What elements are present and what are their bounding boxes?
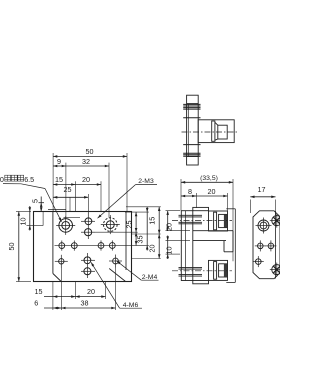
side slab grooves bbox=[179, 215, 203, 276]
M3 hole upper bbox=[81, 218, 95, 225]
bottom-left M6 hole bbox=[55, 255, 68, 268]
center M4 holes center line bbox=[86, 253, 88, 278]
knob taper bottom bbox=[215, 139, 218, 140]
svg-text:25: 25 bbox=[124, 221, 133, 229]
M3 hole ext line bbox=[95, 231, 138, 233]
dim 20 top bbox=[75, 175, 101, 186]
svg-text:15: 15 bbox=[35, 287, 43, 296]
svg-text:15: 15 bbox=[55, 175, 63, 184]
svg-text:50: 50 bbox=[7, 243, 16, 251]
lower knob tip bbox=[219, 264, 227, 277]
right plate big hole bbox=[256, 218, 272, 234]
svg-text:20: 20 bbox=[82, 175, 90, 184]
mid row hole B bbox=[71, 241, 77, 251]
right dim extension lines bbox=[125, 207, 161, 259]
knob body bbox=[198, 120, 234, 143]
dim 9 bbox=[53, 157, 66, 168]
side slab inner edge bbox=[185, 211, 187, 281]
lower knob center line bbox=[172, 270, 232, 272]
dim 6 bottom bbox=[34, 299, 61, 310]
svg-text:25: 25 bbox=[64, 185, 72, 194]
dim 20 v2 left bbox=[164, 211, 190, 231]
dim 20 bottom bbox=[75, 287, 105, 298]
counterbore note bbox=[0, 175, 62, 222]
knob center line bbox=[182, 131, 239, 133]
lower knob flange bbox=[214, 262, 217, 280]
dovetail left edge bbox=[52, 212, 54, 274]
side view inner edge bbox=[187, 104, 189, 157]
svg-text:50: 50 bbox=[86, 147, 94, 156]
svg-text:4-M6: 4-M6 bbox=[123, 302, 139, 309]
svg-text:35: 35 bbox=[135, 236, 144, 244]
platform edge line bbox=[48, 208, 66, 210]
dim 25 right bbox=[124, 212, 137, 245]
right plate outline bbox=[253, 211, 280, 279]
dim 50 left bbox=[7, 212, 31, 282]
svg-text:32: 32 bbox=[82, 157, 90, 166]
svg-text:20: 20 bbox=[164, 223, 173, 231]
upper knob body bbox=[209, 211, 228, 231]
bottom-right M6 hole bbox=[109, 255, 122, 268]
svg-text:6.5: 6.5 bbox=[24, 175, 34, 184]
upper knob flange bbox=[214, 212, 217, 230]
channel right step bbox=[224, 231, 233, 252]
svg-text:6: 6 bbox=[34, 299, 38, 308]
channel bottom line bbox=[193, 240, 226, 242]
svg-text:10: 10 bbox=[164, 247, 173, 255]
dim 50 top bbox=[53, 147, 127, 158]
hole ledge line bbox=[64, 217, 81, 219]
dim 5 bbox=[30, 197, 44, 212]
dim 25 top bbox=[53, 185, 88, 198]
dim 33.5 bbox=[181, 175, 233, 184]
svg-text:20: 20 bbox=[208, 187, 216, 196]
side view top cap separator bbox=[187, 103, 199, 105]
center M4 hole upper bbox=[81, 257, 95, 264]
bottom dim extension lines bbox=[53, 268, 116, 311]
M3 holes center line bbox=[87, 213, 89, 240]
knob taper top bbox=[215, 122, 218, 125]
counterbore hole top-right bbox=[101, 215, 120, 234]
dim 20 right bbox=[148, 234, 161, 259]
dim 20 v2 bbox=[196, 187, 227, 197]
svg-text:15: 15 bbox=[148, 217, 157, 225]
screw top bbox=[270, 214, 284, 228]
screw bottom bbox=[270, 263, 284, 277]
mid row hole D bbox=[109, 240, 115, 250]
right plate hole C bbox=[253, 256, 264, 267]
lower knob boss bbox=[193, 281, 209, 284]
dim 32 bbox=[66, 157, 109, 168]
upper knob center line bbox=[172, 220, 232, 222]
side slab bbox=[181, 211, 193, 281]
side view rail outline bbox=[187, 95, 199, 165]
top dim extension lines bbox=[53, 153, 127, 218]
right plate hole A bbox=[255, 240, 266, 251]
label 2-M4 bbox=[117, 261, 159, 281]
svg-text:38: 38 bbox=[81, 298, 89, 307]
mid row hole C bbox=[98, 240, 104, 250]
knob tip bbox=[218, 125, 227, 139]
upper knob tip bbox=[219, 214, 227, 227]
knob flange bbox=[212, 121, 215, 141]
svg-text:20: 20 bbox=[87, 287, 95, 296]
lower knob body bbox=[209, 260, 228, 280]
dim 17 bbox=[250, 185, 275, 215]
svg-text:(33,5): (33,5) bbox=[200, 175, 218, 182]
dim 38 bottom bbox=[61, 298, 115, 309]
side view bottom cap separator bbox=[187, 156, 199, 158]
svg-text:9: 9 bbox=[57, 157, 61, 166]
dim 15 top bbox=[53, 175, 75, 186]
svg-text:5: 5 bbox=[30, 199, 39, 203]
svg-text:2-M3: 2-M3 bbox=[138, 178, 154, 185]
mid row hole A bbox=[59, 241, 65, 251]
plate outline bbox=[34, 212, 132, 282]
left ext line bbox=[42, 212, 44, 226]
dovetail right edge bbox=[125, 212, 127, 271]
upper bracket bbox=[226, 209, 235, 283]
upper knob boss bbox=[193, 207, 209, 210]
counterbore hole top-left bbox=[56, 216, 75, 235]
dim 8 bbox=[181, 187, 196, 197]
svg-text:0: 0 bbox=[0, 175, 4, 184]
label 4-M6 bbox=[91, 262, 142, 309]
right plate edge line bbox=[275, 211, 277, 279]
svg-text:2-M4: 2-M4 bbox=[142, 274, 158, 281]
center M4 hole lower bbox=[81, 268, 95, 275]
svg-text:8: 8 bbox=[188, 187, 192, 196]
dim 15 bottom bbox=[35, 287, 76, 298]
dovetail left chamfer bbox=[53, 274, 61, 282]
dim 10 v2 left bbox=[164, 236, 190, 260]
right plate hole B bbox=[265, 240, 276, 251]
svg-text:17: 17 bbox=[258, 185, 266, 194]
side view groove lines bbox=[183, 104, 200, 156]
right corner diagonal bbox=[109, 269, 125, 282]
label 2-M3 bbox=[98, 178, 158, 218]
dim 35 right bbox=[135, 207, 148, 251]
view2 extension lines bbox=[181, 179, 233, 261]
dim 10 bbox=[18, 206, 43, 231]
mid row center line bbox=[55, 245, 149, 247]
channel top line bbox=[193, 230, 233, 232]
M3 hole lower bbox=[81, 229, 95, 236]
dim 15 right bbox=[148, 207, 161, 234]
svg-text:10: 10 bbox=[18, 218, 27, 226]
svg-text:20: 20 bbox=[148, 245, 157, 253]
